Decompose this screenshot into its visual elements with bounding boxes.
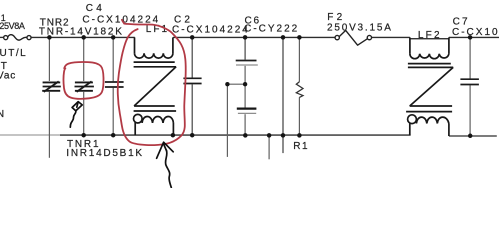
svg-text:TNR-14V182K: TNR-14V182K (39, 26, 124, 37)
svg-text:Vac: Vac (0, 71, 16, 82)
svg-text:C-CY222: C-CY222 (244, 23, 299, 34)
svg-text:250V3.15A: 250V3.15A (327, 22, 393, 33)
svg-text:UT/L: UT/L (0, 48, 27, 59)
svg-text:C7: C7 (453, 17, 470, 28)
svg-text:LF2: LF2 (418, 30, 442, 41)
svg-text:C-CX104224: C-CX104224 (172, 24, 250, 35)
svg-text:N: N (0, 109, 5, 120)
svg-text:25V8A: 25V8A (0, 21, 25, 31)
svg-text:C4: C4 (86, 3, 105, 14)
svg-text:INR14D5B1K: INR14D5B1K (66, 148, 144, 159)
svg-text:R1: R1 (293, 141, 309, 152)
svg-text:C-CX104224: C-CX104224 (452, 27, 499, 38)
